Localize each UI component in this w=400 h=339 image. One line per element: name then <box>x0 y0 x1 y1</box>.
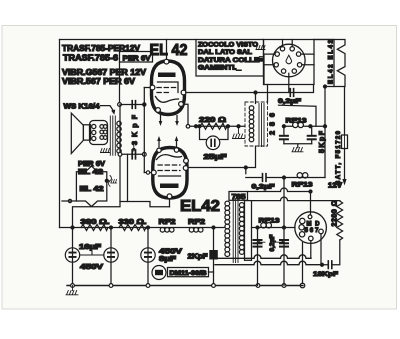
V2 heater arrows <box>159 141 177 148</box>
capacitor 0,2uF coupling <box>290 89 293 97</box>
svg-text:5KpF: 5KpF <box>319 130 326 153</box>
box PER 6V note <box>120 52 153 63</box>
transformer 785 label box <box>229 192 248 201</box>
capacitor 0,2uF battery <box>263 174 267 182</box>
tube V1 EL42 envelope <box>152 61 185 115</box>
wire vibrator feed drop <box>283 178 285 228</box>
785 secondary coil <box>239 203 244 208</box>
svg-text:EL42: EL42 <box>180 198 220 215</box>
pointer arrow to transformer <box>101 106 114 111</box>
bus A vibrator rail <box>215 255 311 258</box>
frame top border <box>60 39 335 41</box>
B+ rail <box>60 227 225 229</box>
svg-text:RF2: RF2 <box>188 217 205 226</box>
V2 grids dashed <box>158 164 180 166</box>
svg-text:8μF: 8μF <box>159 254 177 263</box>
wire socket to 286 <box>267 85 269 103</box>
ZOCCOLO note box <box>196 40 264 77</box>
wire screen tap <box>279 105 317 126</box>
frame left border <box>59 40 61 228</box>
pointer arrow 3KpF <box>133 145 135 149</box>
hatch mark 1771 <box>111 180 117 184</box>
svg-text:GAMENTI._: GAMENTI._ <box>198 65 241 72</box>
svg-text:0,2μF: 0,2μF <box>252 184 275 191</box>
svg-text:VIBR.G567 PER 12V: VIBR.G567 PER 12V <box>62 68 147 77</box>
wire filter cap 1 <box>72 228 74 286</box>
svg-text:286: 286 <box>268 113 277 135</box>
capacitor 18KpF <box>322 240 340 265</box>
socket pin circles <box>280 47 284 51</box>
capacitor 5kpF right <box>311 126 313 134</box>
wire 2200 feed <box>252 197 340 201</box>
svg-text:BATT, F51720: BATT, F51720 <box>336 130 342 185</box>
choke RF13 battery <box>297 173 302 178</box>
wire strip to screen rail <box>325 86 334 88</box>
svg-text:WS K16/4: WS K16/4 <box>64 101 101 110</box>
svg-text:RF13: RF13 <box>286 118 307 125</box>
V1 grid top lead <box>166 40 168 60</box>
capacitor 2KpF <box>209 250 218 260</box>
resistor 220 ohm <box>200 123 227 129</box>
V2 pin heater left <box>157 148 161 152</box>
svg-text:18KpF: 18KpF <box>313 271 338 278</box>
V2 screen grid <box>159 175 181 177</box>
EL42 tube profile strip <box>314 40 345 87</box>
svg-text:RF13: RF13 <box>292 182 313 189</box>
transformer 286 dashed box <box>245 102 268 146</box>
svg-text:PER 6V: PER 6V <box>123 53 152 62</box>
ground bus <box>67 285 303 287</box>
svg-text:16μF: 16μF <box>79 242 102 251</box>
svg-text:ZOCCOLO VISTO: ZOCCOLO VISTO <box>198 41 258 48</box>
capacitor 8uF 450V <box>141 248 155 262</box>
capacitor 0,2uF buffer left <box>257 228 259 286</box>
wire vibrator out <box>320 234 322 265</box>
wire filter cap 2 <box>110 228 112 286</box>
svg-text:VIBR.567 PER 6V: VIBR.567 PER 6V <box>62 77 136 86</box>
tube socket viewed from solder side <box>273 44 306 77</box>
svg-text:EL 42: EL 42 <box>150 42 188 59</box>
286 primary coil <box>249 106 254 111</box>
svg-text:0,2μF: 0,2μF <box>278 98 301 105</box>
wire coupling cap <box>120 153 144 155</box>
wire vibrator sec <box>310 241 312 258</box>
svg-text:2200 Ω: 2200 Ω <box>332 200 339 226</box>
svg-text:390 Ω.: 390 Ω. <box>81 217 110 226</box>
wire secondary return <box>127 154 129 201</box>
wire heater feed <box>120 104 145 106</box>
V1 pin lower-left <box>156 108 161 113</box>
V2 g1 lead <box>144 172 151 174</box>
wire RF13 ground <box>284 144 312 148</box>
wire grid return vertical <box>119 105 121 202</box>
choke RF2 second <box>189 228 194 233</box>
wire V1 plate to socket <box>186 85 314 93</box>
V1 grid 3 dashed <box>157 92 170 94</box>
svg-text:330 Ω.: 330 Ω. <box>119 217 147 226</box>
V2 cathode <box>157 155 182 160</box>
V1 screen grid <box>158 82 179 93</box>
V2 anode plate <box>160 184 179 189</box>
wire vibrator primary top <box>248 188 311 215</box>
resistor 390 ohm <box>81 225 108 231</box>
hatch mark 0771 <box>256 46 265 50</box>
wire chassis tap <box>62 200 76 202</box>
socket mounting box <box>264 40 315 85</box>
V2 pin heater right <box>174 148 178 152</box>
V1 pin cathode lower-right <box>179 102 184 107</box>
svg-text:220 Ω: 220 Ω <box>199 115 226 124</box>
V1 cathode <box>156 97 179 103</box>
wire 6V heater tap <box>119 62 121 105</box>
svg-text:TRASF.785-6: TRASF.785-6 <box>63 53 119 62</box>
choke RF2 first <box>160 228 165 233</box>
capacitor 25uF bypass <box>200 126 229 139</box>
svg-text:RF13: RF13 <box>259 218 280 225</box>
RF13 filter left node <box>282 125 285 128</box>
choke RF13 secondary <box>261 223 266 228</box>
wire RF13 battery line <box>246 168 325 178</box>
bus B vibrator rail <box>215 261 322 265</box>
capacitor 16uF 450V <box>65 248 79 262</box>
286 core <box>259 104 264 147</box>
V1 control grid dashed <box>157 87 177 89</box>
ground (cathode circuit) <box>233 126 245 138</box>
V2 pin g1 left <box>151 170 156 175</box>
V1 pin top <box>164 59 169 64</box>
svg-text:2KpF: 2KpF <box>188 252 209 261</box>
svg-text:DM11-30/B: DM11-30/B <box>170 270 208 277</box>
socket heater leads <box>283 40 293 47</box>
output transformer secondary <box>117 121 121 125</box>
capacitor C2 <box>104 248 118 262</box>
resistor 2200 ohm vertical <box>337 201 343 240</box>
svg-text:RF2: RF2 <box>159 217 176 226</box>
capacitor 0,2uF buffer right <box>283 228 285 286</box>
wire V1 cathode <box>184 104 188 126</box>
wire B+ to vibrator <box>252 227 296 229</box>
resistor 330 ohm <box>119 225 146 231</box>
V1 anode plate <box>158 73 176 78</box>
hatch mark (transformer) <box>101 149 110 153</box>
V1 g1 lead <box>144 87 150 89</box>
svg-text:567: 567 <box>305 227 320 234</box>
fuse F51720 <box>342 135 348 149</box>
svg-text:0,2μF: 0,2μF <box>269 235 276 252</box>
socket right pin leads <box>301 54 314 65</box>
wire battery feed <box>344 87 346 179</box>
svg-text:25μF: 25μF <box>204 152 228 161</box>
ground hatch 0773 <box>292 148 303 152</box>
wire V2 plate to 286 <box>188 147 256 168</box>
svg-text:DATURA COLLE=: DATURA COLLE= <box>198 57 264 64</box>
tube V2 EL42 envelope <box>153 148 187 199</box>
785 secondary box <box>245 201 252 261</box>
choke RF13 <box>293 122 298 127</box>
V2 pin anode right <box>183 166 188 171</box>
capacitor coupling bottom <box>132 150 135 159</box>
output transformer primary <box>90 121 108 145</box>
V1 pin g1 left <box>150 85 155 90</box>
wire grid bus vertical <box>143 88 145 173</box>
svg-text:DAL LATO SAL: DAL LATO SAL <box>198 49 252 56</box>
V1 heater arrows <box>161 116 178 122</box>
capacitor RF13 left <box>283 126 285 134</box>
wire buffer cap <box>213 228 215 286</box>
wire RF13 out <box>310 125 325 127</box>
V2 pin right upper <box>184 158 189 163</box>
785 core <box>233 199 238 263</box>
EL42 tube profile outline <box>76 166 106 207</box>
vibrator unit 567 <box>295 212 327 244</box>
battery + terminal arrow <box>342 179 346 186</box>
svg-text:12V: 12V <box>328 183 342 190</box>
flexible lead mark <box>105 179 108 182</box>
svg-text:450V: 450V <box>80 262 103 271</box>
wire filter cap 3 <box>147 228 149 286</box>
wire V2 return path <box>73 202 170 228</box>
wire screen supply vertical <box>324 87 326 178</box>
capacitor 3kpF top <box>132 101 135 109</box>
V2 pin bottom <box>167 194 172 199</box>
speaker WS K16/4 <box>71 113 83 153</box>
wire V1 plate to 286 <box>255 93 257 104</box>
785 primary coil <box>225 201 230 206</box>
vibrator pins <box>300 218 305 223</box>
V2 bottom lead <box>169 199 171 207</box>
pilot lamp DM11-30/B <box>152 266 166 280</box>
ground chassis symbol <box>66 286 78 295</box>
socket left pin leads <box>260 54 276 84</box>
wire vibrator ground <box>302 243 304 284</box>
output transformer core <box>110 116 115 155</box>
socket cathode lead <box>288 73 290 92</box>
svg-text:EL 42: EL 42 <box>80 186 104 193</box>
terminal circle <box>300 283 305 288</box>
socket key <box>286 55 291 64</box>
V1 pin anode right <box>181 90 186 95</box>
wire cathode resistor rail <box>188 125 245 127</box>
